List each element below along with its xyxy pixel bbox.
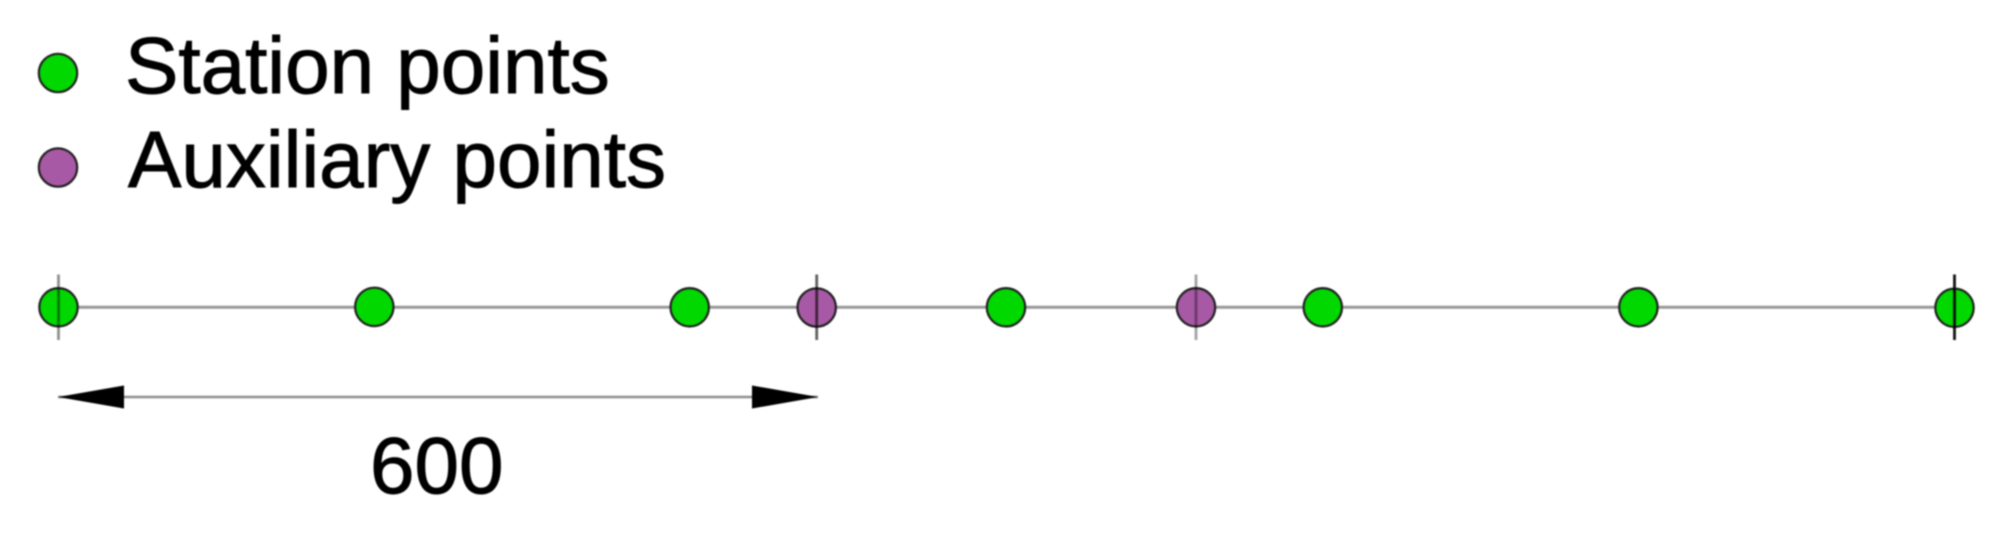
station point P1 (green, with tick) bbox=[39, 275, 77, 341]
dimension arrowhead left bbox=[58, 386, 124, 409]
dimension label: 600 bbox=[370, 421, 503, 510]
svg-text:Auxiliary points: Auxiliary points bbox=[128, 115, 666, 204]
dimension arrow shaft bbox=[58, 396, 818, 399]
legend marker: station points (green) bbox=[39, 54, 77, 92]
svg-text:Station points: Station points bbox=[125, 21, 610, 110]
station point P5 (green) bbox=[1304, 288, 1342, 326]
station point P7 (green, with tick) bbox=[1935, 275, 1973, 341]
svg-text:600: 600 bbox=[370, 421, 503, 510]
legend marker: auxiliary points (purple) bbox=[39, 148, 77, 186]
station point P2 (green) bbox=[355, 288, 393, 326]
station point P4 (green) bbox=[987, 288, 1025, 326]
legend label: Auxiliary points bbox=[128, 115, 666, 204]
auxiliary point A1 (purple, with tick) bbox=[798, 275, 836, 341]
station point P3 (green) bbox=[671, 288, 709, 326]
station point P6 (green) bbox=[1619, 288, 1657, 326]
wire: traverse base line bbox=[59, 306, 1955, 309]
legend label: Station points bbox=[125, 21, 610, 110]
dimension arrowhead right bbox=[752, 386, 818, 409]
auxiliary point A2 (purple, with tick) bbox=[1177, 275, 1215, 341]
